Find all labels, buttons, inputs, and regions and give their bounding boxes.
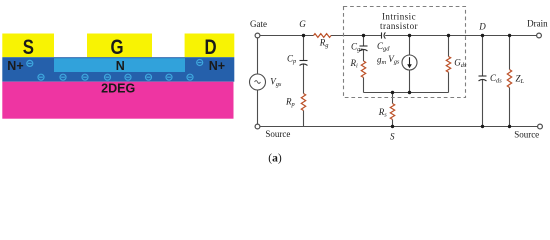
node D dot: [481, 34, 484, 37]
svg-text:Cp: Cp: [287, 54, 296, 66]
N+ barrier layer (dark blue): [2, 57, 234, 81]
wire current source top: [409, 36, 411, 56]
svg-text:D: D: [478, 22, 486, 32]
svg-text:Source: Source: [514, 129, 539, 139]
electron row 2: [60, 74, 66, 80]
node current source top dot: [408, 34, 411, 37]
svg-text:Source: Source: [265, 129, 290, 139]
wire node D down to Cds: [482, 36, 484, 77]
node current source bottom dot: [408, 91, 411, 94]
resistor Rp: [301, 94, 305, 111]
capacitor Cp: [300, 61, 308, 66]
svg-text:transistor: transistor: [380, 21, 418, 31]
svg-text:Drain: Drain: [527, 18, 548, 28]
wire ZL to bottom rail: [509, 88, 511, 127]
wire Gds bottom to inner rail: [448, 72, 450, 92]
svg-text:S: S: [23, 36, 34, 59]
svg-text:G: G: [299, 19, 306, 29]
svg-text:N+: N+: [209, 59, 225, 73]
node S dot: [391, 125, 394, 128]
resistor Rs: [390, 104, 394, 120]
svg-text:S: S: [390, 131, 395, 141]
resistor Rg: [314, 34, 332, 38]
svg-text:N: N: [116, 59, 125, 73]
node Cds bottom dot: [481, 125, 484, 128]
wire gate terminal down to Vgs source: [257, 38, 259, 74]
svg-text:G: G: [110, 36, 123, 59]
wire node G down to Cp: [303, 36, 305, 61]
wire current source bottom: [409, 70, 411, 93]
node ZL bottom dot: [508, 125, 511, 128]
svg-text:Intrinsic: Intrinsic: [382, 11, 416, 21]
source terminal right: [538, 124, 543, 129]
gate terminal: [255, 33, 260, 38]
electron near drain N+: [197, 60, 203, 66]
electron near source N+: [27, 60, 33, 66]
capacitor Cgs: [360, 46, 368, 51]
node ZL top dot: [508, 34, 511, 37]
wire Rp to bottom rail: [303, 111, 305, 127]
node Cgs top dot: [362, 34, 365, 37]
svg-text:D: D: [204, 36, 216, 59]
wire ZL node down: [509, 36, 511, 70]
resistor Gds: [446, 57, 450, 73]
wire Cp to Rp: [303, 64, 305, 93]
svg-text:Rs: Rs: [378, 107, 388, 119]
electron row 3: [82, 74, 88, 80]
wire top: gate terminal to Rg: [260, 35, 314, 37]
wire Rs bottom to node S: [392, 120, 394, 127]
svg-text:Rp: Rp: [285, 97, 295, 109]
arrow in current source: [409, 57, 411, 65]
current source gmVgs circle: [402, 55, 417, 70]
wire Gds to top node: [448, 36, 450, 57]
svg-text:(a): (a): [268, 152, 282, 164]
svg-text:Ri: Ri: [350, 58, 359, 70]
dashed box intrinsic transistor: [344, 7, 466, 98]
gate contact G (yellow): [87, 34, 152, 58]
svg-text:2DEG: 2DEG: [101, 81, 135, 95]
electron row 5: [125, 74, 131, 80]
source contact S (yellow): [2, 34, 54, 58]
svg-text:N+: N+: [7, 59, 23, 73]
source terminal left: [255, 124, 260, 129]
wire Vgs source down to bottom rail: [257, 90, 259, 124]
wire node Cgs down: [363, 36, 365, 47]
wire Cgs to Ri: [363, 50, 365, 61]
svg-text:Vgs: Vgs: [388, 54, 400, 66]
svg-text:Cgd: Cgd: [377, 41, 390, 53]
capacitor Cds: [479, 76, 487, 81]
electron row 7: [166, 74, 172, 80]
svg-text:Gate: Gate: [250, 19, 267, 29]
wire Cds to bottom rail: [482, 80, 484, 127]
wire Ri to inner bottom rail: [363, 78, 365, 93]
svg-text:Vgs: Vgs: [270, 77, 282, 89]
svg-text:Rg: Rg: [319, 37, 330, 49]
electron row 8: [187, 74, 193, 80]
node Rs top dot: [391, 91, 394, 94]
svg-text:ZL: ZL: [516, 74, 525, 86]
svg-text:Cds: Cds: [490, 73, 502, 85]
wire bottom rail: [260, 126, 538, 128]
wire top: Rg to Cgd left plate: [331, 35, 382, 37]
capacitor Cgd (horizontal): [382, 32, 386, 38]
wire top: Cgd right plate to drain terminal: [385, 35, 536, 37]
voltage source Vgs circle: [250, 74, 266, 90]
electron row 1: [38, 74, 44, 80]
drain contact D (yellow): [185, 34, 235, 58]
drain terminal: [537, 33, 542, 38]
2DEG substrate layer (magenta): [2, 82, 233, 119]
resistor ZL: [507, 70, 511, 88]
N channel layer (light blue): [54, 58, 185, 72]
node G dot: [302, 34, 305, 37]
resistor Ri: [361, 61, 365, 78]
svg-text:gm: gm: [377, 55, 387, 67]
electron row 4: [105, 74, 111, 80]
wire inner bottom rail: [364, 92, 449, 94]
node Gds top dot: [447, 34, 450, 37]
sine symbol in Vgs source: [255, 81, 261, 84]
electron row 6: [146, 74, 152, 80]
wire Rs top from inner rail: [392, 93, 394, 104]
svg-text:Cgs: Cgs: [351, 42, 363, 54]
